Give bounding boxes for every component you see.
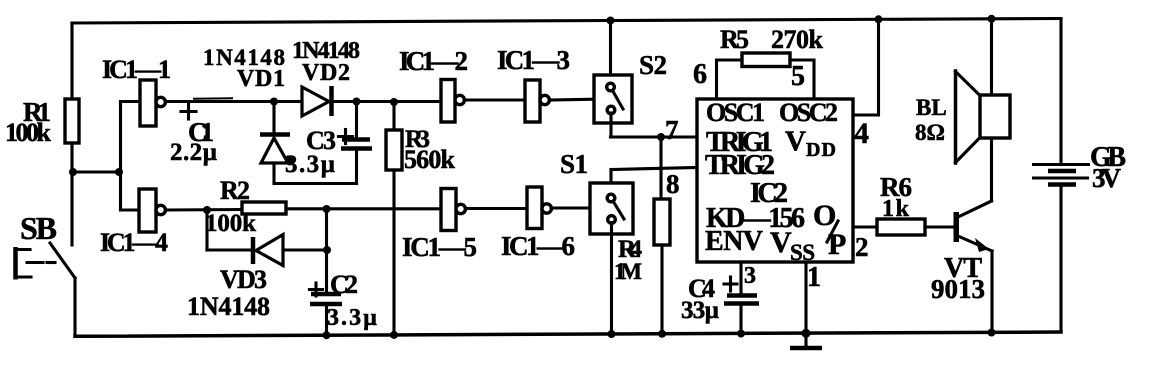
svg-text:IC1—1: IC1—1 [102,55,171,84]
wire IC1-6 to S1 [551,206,606,209]
op-amp U6: inverter IC1-6 [501,187,575,261]
svg-text:VD2: VD2 [302,60,350,86]
resistor R2 [205,176,441,237]
op-amp U2: inverter IC1-2 [399,46,468,122]
capacitor C4 [681,262,759,338]
wire IC1-2 to IC1-3 [464,98,525,101]
op-amp U4: inverter IC1-4 [100,189,168,257]
svg-text:R2: R2 [220,176,250,205]
svg-text:OSC2: OSC2 [779,98,838,127]
wire top rail [72,19,1061,24]
svg-text:270k: 270k [771,25,824,54]
wire IC1-1 output to VD2 [165,100,302,103]
svg-text:8: 8 [666,169,680,199]
svg-text:P: P [828,228,846,261]
wire IC1 input vertical [121,102,141,211]
node R3 top junction [390,98,398,106]
wire IC1-4 output row [165,206,242,214]
svg-text:1k: 1k [882,196,910,222]
svg-text:R5: R5 [720,25,749,54]
node top rail S2 junction [607,17,615,25]
op-amp U5: inverter IC1-5 [402,189,477,263]
svg-text:33µ: 33µ [681,297,719,324]
svg-text:DD: DD [806,139,836,161]
wire IC1-3 to S2 [549,99,606,100]
node VD3 anode junction [323,246,331,254]
switch S1 [560,149,633,338]
node C3 top junction [353,98,361,106]
svg-text:IC1—3: IC1—3 [497,45,570,75]
svg-text:ENV: ENV [705,226,763,257]
svg-text:IC1—4: IC1—4 [100,228,168,257]
resistor R5 [693,25,824,99]
node R2 right branch [323,205,331,213]
svg-text:C2: C2 [330,270,358,299]
resistor R3 [386,102,456,336]
svg-text:100k: 100k [205,210,256,237]
op-amp U3: inverter IC1-3 [497,45,570,122]
svg-text:IC1—5: IC1—5 [402,232,477,262]
node A (R1 bottom junction row) [69,168,123,176]
speaker BL [915,15,1010,163]
node R3 bottom junction [390,331,398,339]
IC U1: IC2 KD-156 box [697,98,853,265]
svg-text:S2: S2 [639,50,667,80]
svg-text:SB: SB [20,210,57,246]
diode VD2 [292,38,441,116]
switch S2 [594,21,667,138]
svg-text:6: 6 [693,59,707,90]
svg-text:VD3: VD3 [220,265,267,294]
svg-text:IC1—2: IC1—2 [399,46,468,76]
wire bottom rail [75,332,1061,336]
svg-text:V: V [770,226,792,259]
resistor R6 [877,172,954,235]
svg-text:5: 5 [791,61,805,92]
svg-text:S1: S1 [560,149,588,179]
svg-text:BL: BL [916,95,947,120]
svg-text:3.3µ: 3.3µ [285,151,335,178]
switch SB [16,172,76,336]
svg-text:2.2µ: 2.2µ [170,139,217,166]
resistor R1 [5,23,79,172]
svg-text:8Ω: 8Ω [915,120,945,145]
wire TRIG2 pin 8 [611,168,697,200]
op-amp U1: inverter IC1-1 [102,55,171,126]
svg-text:1M: 1M [614,259,642,284]
node VD1 top junction [270,98,278,106]
wire IC1-5 to IC1-6 [465,207,527,210]
ground [790,262,822,348]
svg-text:TRIG2: TRIG2 [705,150,775,181]
resistor R4 [614,137,670,338]
svg-text:9013: 9013 [931,274,985,304]
capacitor C1 (polarity mark and labels on wire) [170,103,217,166]
diode VD1 [203,45,295,184]
svg-text:V: V [785,126,806,158]
svg-text:560k: 560k [404,145,456,174]
svg-text:IC1—6: IC1—6 [501,231,575,261]
svg-text:1: 1 [807,262,821,293]
wire VDD pin 4 [853,15,883,150]
battery GB [1032,19,1126,333]
svg-text:100k: 100k [5,118,52,147]
svg-text:2: 2 [855,232,869,262]
svg-text:3.3µ: 3.3µ [327,305,377,331]
svg-text:1N4148: 1N4148 [187,292,270,321]
wire TRIG1 pin 7 [611,115,698,145]
transistor Q1 VT 9013 [931,138,996,337]
diode VD3 [187,210,327,321]
capacitor C3 [275,102,372,184]
svg-text:3: 3 [744,263,756,289]
svg-text:VD1: VD1 [237,66,285,92]
capacitor C2 [310,209,378,339]
svg-text:4: 4 [854,117,869,150]
svg-text:3V: 3V [1092,163,1122,193]
svg-text:OSC1: OSC1 [706,98,765,127]
svg-text:7: 7 [665,115,679,145]
wire O/P pin 2 [853,227,877,262]
wire scan artifact above C1 [193,97,233,100]
